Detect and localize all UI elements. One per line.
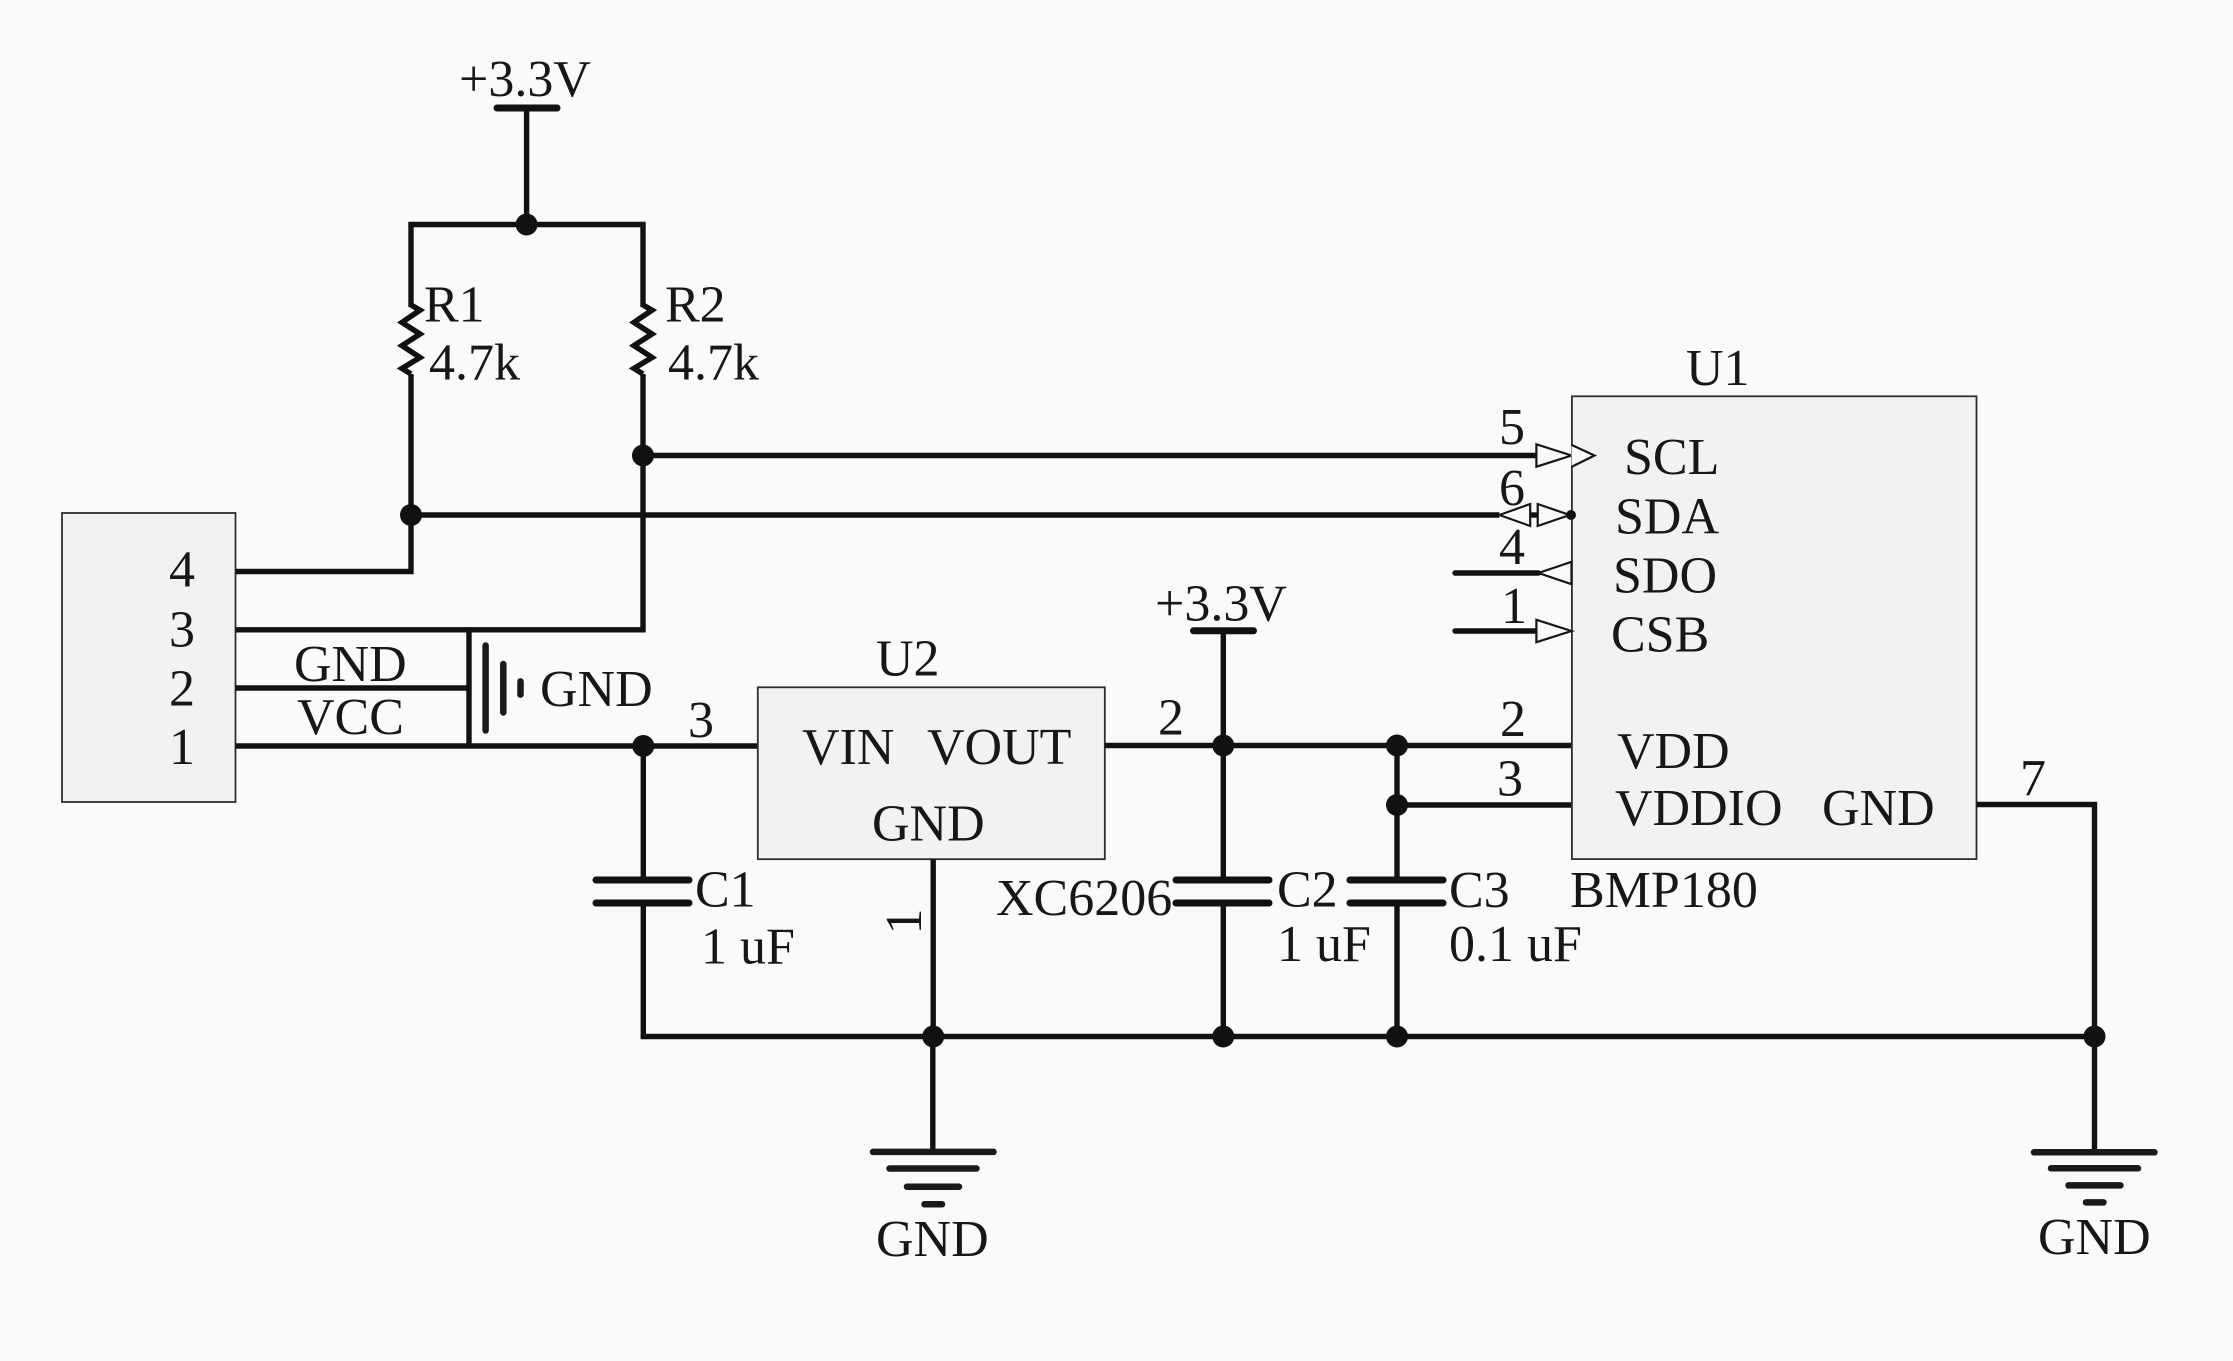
svg-text:R1: R1 [424,277,485,334]
svg-text:1: 1 [169,719,195,776]
svg-text:4: 4 [1499,519,1525,576]
pin 1 CSB arrow [1536,620,1571,642]
junction C2 / rail [1212,1026,1234,1048]
svg-text:3: 3 [688,692,714,749]
pin 5 SCL clock chevron [1572,445,1595,467]
capacitor C3 [1350,880,1443,903]
wire CSB stub [1455,628,1536,633]
wire U1 GND pin 7 [1977,805,2095,1037]
svg-text:GND: GND [540,661,653,718]
svg-text:2: 2 [1500,691,1526,748]
svg-text:CSB: CSB [1611,607,1709,664]
wire ground stub vertical [466,627,471,746]
svg-text:GND: GND [1822,780,1935,837]
IC U1 BMP180 [1572,396,1977,859]
ground symbol (bottom left) [873,1037,994,1205]
svg-text:XC6206: XC6206 [996,870,1172,927]
wire R2 upper lead [640,222,645,307]
svg-text:C3: C3 [1449,862,1510,919]
pin 5 SCL arrow [1536,444,1571,466]
wire SDA net [411,512,1499,517]
resistor R1 [402,305,420,374]
pin 6 SDA bidirectional arrow [1499,504,1576,526]
power +3.3V (top left) [497,108,557,225]
svg-text:1 uF: 1 uF [701,919,795,976]
junction C3 / rail [1386,1026,1408,1048]
svg-text:C2: C2 [1277,862,1338,919]
junction VOUT / C3 branch [1386,735,1408,757]
svg-text:3: 3 [169,602,195,659]
svg-text:SDO: SDO [1613,548,1717,605]
wire R2 to pin3 vertical [640,456,645,633]
wire R1 lower lead [408,374,413,515]
wire C1 top lead [641,746,646,877]
svg-text:7: 7 [2020,750,2046,807]
svg-text:4.7k: 4.7k [668,335,759,392]
wire C2 top lead [1221,746,1226,877]
wire top rail R1-R2 [409,222,646,227]
junction VCC / C1 / VIN [632,735,654,757]
svg-text:1 uF: 1 uF [1277,916,1371,973]
svg-text:SCL: SCL [1624,429,1719,486]
power +3.3V (middle) [1194,631,1254,746]
svg-text:1: 1 [876,909,933,935]
svg-text:GND: GND [294,636,407,693]
wire pin3 to R2 [236,627,644,632]
IC U2 regulator [758,687,1105,859]
svg-text:U1: U1 [1686,340,1750,397]
svg-text:R2: R2 [665,277,726,334]
wire pin2 [236,685,470,690]
wire C3 / VDDIO vertical [1394,746,1399,877]
svg-text:4.7k: 4.7k [429,335,520,392]
svg-text:VOUT: VOUT [927,719,1071,776]
svg-text:VIN: VIN [802,719,894,776]
junction U2 GND / rail [922,1026,944,1048]
junction VDDIO [1386,794,1408,816]
wire pin1 VCC to VIN [236,743,758,748]
wire SDO stub [1455,570,1539,575]
svg-text:0.1 uF: 0.1 uF [1449,916,1582,973]
wire SCL net [643,453,1536,458]
junction R2 / SCL [632,445,654,467]
capacitor C1 [596,880,689,903]
svg-text:C1: C1 [695,862,756,919]
junction rail / pin7 ground [2084,1026,2106,1048]
wire VDDIO [1397,802,1572,807]
svg-text:5: 5 [1499,399,1525,456]
svg-text:2: 2 [1158,690,1184,747]
wire U2 GND pin [931,859,936,1036]
resistor R2 [634,305,652,374]
svg-text:2: 2 [169,661,195,718]
wire C3 bottom lead [1394,907,1399,1037]
svg-text:U2: U2 [876,631,940,688]
ground symbol (bottom right) [2034,1037,2155,1203]
pin 4 SDO arrow (output, points left) [1539,562,1572,584]
junction R1 / SDA / pin4 [400,504,422,526]
capacitor C2 [1176,880,1269,903]
svg-text:VCC: VCC [297,689,404,746]
wire ground rail (bottom) [641,1034,2095,1039]
svg-text:VDD: VDD [1617,723,1730,780]
svg-text:3: 3 [1497,751,1523,808]
svg-text:+3.3V: +3.3V [459,51,591,108]
svg-text:BMP180: BMP180 [1570,862,1758,919]
wire pin4 to SDA junction [236,515,412,572]
wire R2 lower lead [640,374,645,456]
ground symbol (connector, rotated right) [486,646,521,731]
svg-text:GND: GND [876,1211,989,1268]
svg-text:GND: GND [872,796,985,853]
wire C1 bottom lead [641,907,646,1037]
svg-text:+3.3V: +3.3V [1155,576,1287,633]
svg-text:GND: GND [2038,1209,2151,1266]
svg-text:SDA: SDA [1615,489,1719,546]
svg-text:4: 4 [169,542,195,599]
wire VOUT to VDD [1105,743,1572,748]
svg-text:VDDIO: VDDIO [1615,780,1783,837]
wire R1 upper lead [408,222,413,307]
wire C2 bottom lead [1221,907,1226,1037]
svg-text:1: 1 [1501,578,1527,635]
connector J1 [62,513,236,802]
junction +3.3V / VOUT / C2 [1212,735,1234,757]
junction +3.3V / top rail [516,214,538,236]
